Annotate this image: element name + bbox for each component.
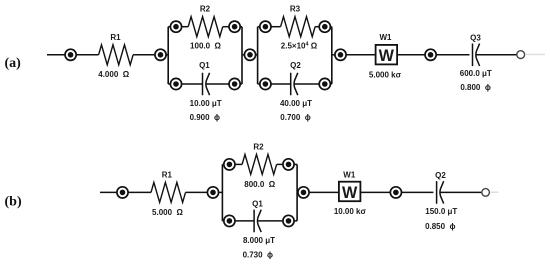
label R1 (a) bbox=[110, 33, 121, 42]
node a4 bbox=[335, 49, 346, 60]
wire to Q2 (a) bbox=[271, 83, 291, 85]
node a blk2 bottom-right bbox=[319, 78, 330, 89]
svg-text:0.850 ϕ: 0.850 ϕ bbox=[425, 222, 455, 231]
wire rail-a3 bbox=[242, 54, 244, 56]
node a1 bbox=[65, 49, 76, 60]
svg-text:W1: W1 bbox=[343, 171, 356, 180]
value 800.0 ohm (b) bbox=[244, 180, 275, 189]
svg-text:0.700 ϕ: 0.700 ϕ bbox=[280, 113, 310, 122]
svg-text:2.5×104 Ω: 2.5×104 Ω bbox=[281, 42, 318, 51]
value 0.900 phi (a) bbox=[190, 113, 220, 122]
wire node-rail (b tr) bbox=[294, 163, 297, 165]
node a blk1 top-left bbox=[170, 21, 181, 32]
svg-text:Q2: Q2 bbox=[435, 171, 446, 180]
wire left rail block1 (a) bbox=[167, 27, 169, 84]
label R2 (a) bbox=[200, 5, 211, 14]
terminal (a) open circle bbox=[517, 51, 525, 59]
wire node-rail (a blk1 tr) bbox=[240, 26, 242, 28]
capacitor CPE Q2 (b) bbox=[437, 181, 444, 204]
svg-text:10.00 kσ: 10.00 kσ bbox=[334, 207, 367, 216]
node b bottom-right bbox=[283, 215, 294, 226]
wire b2-rail bbox=[219, 191, 223, 193]
value 8.000 uT (b) bbox=[243, 236, 275, 245]
wire W1-b4 bbox=[360, 191, 390, 193]
svg-text:W: W bbox=[342, 184, 358, 202]
svg-text:W1: W1 bbox=[380, 33, 393, 42]
svg-text:0.730 ϕ: 0.730 ϕ bbox=[243, 250, 273, 259]
capacitor CPE Q1 (b) bbox=[254, 210, 261, 233]
svg-text:R1: R1 bbox=[110, 33, 121, 42]
svg-text:(b): (b) bbox=[5, 195, 22, 210]
wire gray stub (b) bbox=[490, 191, 498, 193]
value 10.00 ksigma (b) bbox=[334, 207, 367, 216]
wire b-start bbox=[100, 191, 117, 193]
value 100.0 ohm (a) bbox=[190, 42, 221, 51]
value 5.000 ohm (b) bbox=[152, 208, 183, 217]
wire R1-b2 bbox=[186, 191, 208, 193]
wire a5-Q3 bbox=[436, 54, 469, 56]
svg-text:R2: R2 bbox=[253, 142, 264, 151]
Warburg W1 (b) box bbox=[339, 182, 361, 202]
wire rail-top node (a blk1) bbox=[168, 26, 170, 28]
wire R2-node (b) bbox=[277, 163, 283, 165]
node a blk1 bottom-right bbox=[229, 78, 240, 89]
wire a4-W1 bbox=[346, 54, 376, 56]
node b4 bbox=[390, 187, 401, 198]
node b top-right bbox=[283, 159, 294, 170]
svg-text:5.000 kσ: 5.000 kσ bbox=[369, 70, 402, 79]
node a2 bbox=[155, 49, 166, 60]
wire rail-top node (a blk2) bbox=[258, 26, 260, 28]
value 10.00 uT (a) bbox=[190, 99, 222, 108]
wire right rail block (b) bbox=[296, 164, 298, 221]
svg-text:4.000 Ω: 4.000 Ω bbox=[98, 70, 129, 79]
node a blk2 top-right bbox=[319, 21, 330, 32]
wire rail-bottom node (a blk1) bbox=[168, 83, 170, 85]
node a blk1 bottom-left bbox=[170, 78, 181, 89]
wire node-rail (a blk2 tr) bbox=[330, 26, 331, 28]
wire R3-node (a) bbox=[315, 26, 319, 28]
label Q1 (a) bbox=[199, 61, 210, 70]
wire rail-bottom node (a blk2) bbox=[258, 83, 260, 85]
wire left rail block (b) bbox=[221, 164, 223, 221]
svg-text:5.000 Ω: 5.000 Ω bbox=[152, 208, 183, 217]
wire a2-rail bbox=[166, 54, 168, 56]
wire gray stub (a) bbox=[525, 53, 545, 55]
label Q2 (a) bbox=[290, 61, 301, 70]
wire to Q1 (b) bbox=[235, 220, 254, 222]
svg-text:800.0 Ω: 800.0 Ω bbox=[244, 180, 275, 189]
svg-text:R3: R3 bbox=[290, 5, 301, 14]
wire R2-node (a) bbox=[223, 26, 229, 28]
svg-text:40.00 μT: 40.00 μT bbox=[280, 99, 312, 108]
label R3 (a) bbox=[290, 5, 301, 14]
value 2.5x10^4 ohm (a) bbox=[281, 42, 318, 51]
label W1 (b) bbox=[343, 171, 356, 180]
label Q2 (b) bbox=[435, 171, 446, 180]
resistor R1 (b) bbox=[151, 182, 186, 202]
value 0.850 phi (b) bbox=[425, 222, 455, 231]
wire to R3 (a) bbox=[271, 26, 281, 28]
svg-text:W: W bbox=[379, 47, 395, 65]
wire b3-W1 bbox=[309, 191, 339, 193]
capacitor CPE Q3 (a) bbox=[473, 44, 480, 67]
value 4.000 ohm (a) bbox=[98, 70, 129, 79]
node a5 bbox=[425, 49, 436, 60]
label W1 (a) bbox=[380, 33, 393, 42]
wire Q1-node (a) bbox=[206, 83, 229, 85]
capacitor CPE Q2 (a) bbox=[291, 73, 298, 96]
wire to R2 (b) bbox=[235, 163, 242, 165]
svg-text:10.00 μT: 10.00 μT bbox=[190, 99, 222, 108]
wire rail-top node (b) bbox=[222, 163, 224, 165]
wire to R2 (a) bbox=[182, 26, 189, 28]
Warburg W1 (a) box bbox=[376, 45, 398, 65]
terminal (b) open circle bbox=[482, 189, 490, 197]
wire node-rail (a blk2 br) bbox=[330, 83, 331, 85]
wire b4-Q2 bbox=[402, 191, 434, 193]
value 0.730 phi (b) bbox=[243, 250, 273, 259]
wire left rail block2 (a) bbox=[257, 27, 259, 84]
svg-text:8.000 μT: 8.000 μT bbox=[243, 236, 275, 245]
resistor R1 (a) bbox=[99, 45, 134, 65]
svg-text:0.800 ϕ: 0.800 ϕ bbox=[460, 83, 490, 92]
wire right rail block2 (a) bbox=[331, 27, 333, 84]
svg-text:Q3: Q3 bbox=[470, 34, 481, 43]
label Q1 (b) bbox=[252, 200, 263, 209]
label R1 (b) bbox=[162, 171, 173, 180]
wire Q1-node (b) bbox=[258, 220, 283, 222]
label Q3 (a) bbox=[470, 34, 481, 43]
label (b) bbox=[5, 195, 22, 210]
svg-text:Q2: Q2 bbox=[290, 61, 301, 70]
node b1 bbox=[117, 187, 128, 198]
label (a) bbox=[5, 56, 22, 71]
wire rail-b3 bbox=[296, 191, 299, 193]
node b2 bbox=[207, 187, 218, 198]
svg-text:(a): (a) bbox=[5, 56, 22, 71]
wire R1-a2 bbox=[133, 54, 155, 56]
svg-text:Q1: Q1 bbox=[252, 200, 263, 209]
wire rail-bottom node (b) bbox=[222, 220, 224, 222]
svg-text:R1: R1 bbox=[162, 171, 173, 180]
svg-text:600.0 μT: 600.0 μT bbox=[460, 69, 492, 78]
wire rail2-a4 bbox=[332, 54, 335, 56]
wire a1-R1 bbox=[76, 54, 98, 56]
wire b1-R1 bbox=[128, 191, 151, 193]
value 150.0 uT (b) bbox=[425, 207, 457, 216]
capacitor CPE Q1 (a) bbox=[203, 73, 210, 96]
resistor R2 (a) bbox=[188, 17, 223, 37]
wire Q3-terminal (a) bbox=[476, 54, 516, 56]
value 40.00 uT (a) bbox=[280, 99, 312, 108]
wire Q2-node (a) bbox=[295, 83, 320, 85]
wire to Q1 (a) bbox=[182, 83, 203, 85]
node b3 bbox=[298, 187, 309, 198]
svg-text:R2: R2 bbox=[200, 5, 211, 14]
node b bottom-left bbox=[224, 215, 235, 226]
wire a-start bbox=[47, 54, 65, 56]
svg-text:0.900 ϕ: 0.900 ϕ bbox=[190, 113, 220, 122]
resistor R2 (b) bbox=[242, 154, 277, 174]
value 0.700 phi (a) bbox=[280, 113, 310, 122]
value 600.0 uT (a) bbox=[460, 69, 492, 78]
node b top-left bbox=[224, 159, 235, 170]
wire right rail block1 (a) bbox=[241, 27, 243, 84]
node a blk1 top-right bbox=[229, 21, 240, 32]
wire Q2-terminal (b) bbox=[441, 191, 482, 193]
node a3 bbox=[244, 49, 255, 60]
value 5.000 ksigma (a) bbox=[369, 70, 402, 79]
label R2 (b) bbox=[253, 142, 264, 151]
value 0.800 phi (a) bbox=[460, 83, 490, 92]
svg-text:150.0 μT: 150.0 μT bbox=[425, 207, 457, 216]
wire node-rail (a blk1 br) bbox=[240, 83, 242, 85]
wire node-rail (b br) bbox=[294, 220, 297, 222]
resistor R3 (a) bbox=[281, 17, 316, 37]
node a blk2 top-left bbox=[260, 21, 271, 32]
svg-text:100.0 Ω: 100.0 Ω bbox=[190, 42, 221, 51]
svg-text:Q1: Q1 bbox=[199, 61, 210, 70]
wire W1-a5 bbox=[397, 54, 425, 56]
node a blk2 bottom-left bbox=[260, 78, 271, 89]
wire a3-rail2 bbox=[256, 54, 258, 56]
